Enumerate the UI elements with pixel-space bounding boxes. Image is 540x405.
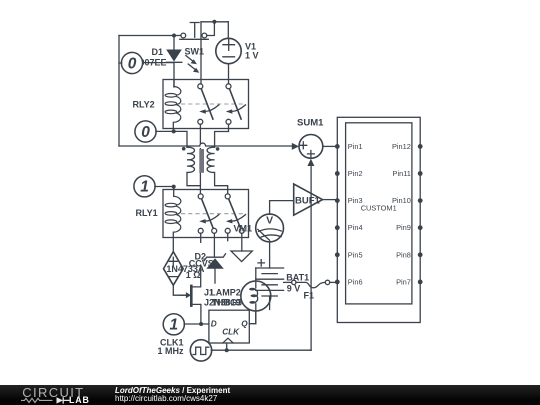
controlled source CCVS1 diamond <box>164 252 184 286</box>
relay RLY1 coil <box>165 196 181 232</box>
buffer BUF1 <box>294 184 335 215</box>
voltmeter VM1 <box>256 214 284 242</box>
relay RLY2 coil <box>165 86 181 122</box>
footer title text <box>115 387 230 403</box>
relay RLY2 right switch <box>226 84 246 125</box>
node 1 RLY1 <box>134 176 174 197</box>
svg-text:Pin8: Pin8 <box>396 250 411 259</box>
svg-text:1: 1 <box>140 179 149 196</box>
svg-text:Pin12: Pin12 <box>392 142 411 151</box>
wire RLY2 right bottom to secondary top <box>215 124 229 147</box>
node junction RLY1 coil top <box>172 185 176 189</box>
svg-text:F1: F1 <box>304 291 315 301</box>
chip pin squares left <box>335 144 340 284</box>
wire CLK junction to flip-flop <box>226 343 228 350</box>
relay RLY1 dashed link <box>181 213 245 215</box>
chip pin squares right <box>418 144 423 284</box>
svg-text:1 V: 1 V <box>245 51 259 61</box>
voltage source V1 <box>216 38 241 83</box>
wire top to V1 <box>227 22 229 39</box>
wire Q to lamp <box>249 311 256 324</box>
node junction top D1 <box>172 34 176 38</box>
wire VM1 top to BUF1 input <box>270 201 294 215</box>
flip-flop CLK1 box <box>209 310 249 343</box>
svg-text:Pin1: Pin1 <box>348 142 363 151</box>
wire node 0 to D1 cathode <box>142 62 174 64</box>
svg-text:BUF1: BUF1 <box>295 196 321 207</box>
wire clock riser to SUM1 bottom input <box>310 166 312 350</box>
chip CUSTOM1 outer box <box>337 117 420 322</box>
svg-text:Pin7: Pin7 <box>396 277 411 286</box>
ground <box>231 251 252 262</box>
chip CUSTOM1 inner box <box>346 123 412 304</box>
wire main horizontal to SUM1 with hop <box>119 143 293 146</box>
svg-text:RLY1: RLY1 <box>136 208 158 218</box>
svg-text:Pin6: Pin6 <box>348 277 363 286</box>
relay RLY1 right switch <box>225 194 245 233</box>
svg-text:BAT1: BAT1 <box>286 273 309 283</box>
SUM1 bottom input arrowhead <box>307 159 314 166</box>
flip-flop clock edge triangle <box>223 338 233 343</box>
svg-text:Pin5: Pin5 <box>348 250 363 259</box>
svg-text:Pin9: Pin9 <box>396 223 411 232</box>
relay RLY2 box <box>163 80 249 129</box>
svg-text:Pin3: Pin3 <box>348 196 363 205</box>
svg-text:LAMP2: LAMP2 <box>210 288 241 298</box>
svg-text:RLY2: RLY2 <box>133 99 155 109</box>
clock source CLK1 <box>190 340 211 361</box>
transformer T1 primary winding <box>187 147 200 186</box>
node 0 top left <box>119 52 143 73</box>
svg-text:0: 0 <box>128 55 137 72</box>
svg-text:1: 1 <box>169 317 178 334</box>
node 1 flip-flop <box>163 314 209 335</box>
D1 LED arrows <box>186 56 200 73</box>
wire left rail <box>118 36 120 147</box>
node junction SW1 top <box>212 20 216 24</box>
wire RLY1 to ground <box>241 233 243 251</box>
wire SUM1 output to Pin1 <box>323 145 335 147</box>
wire RLY1 to D2 <box>213 233 215 256</box>
summer SUM1 <box>299 135 323 159</box>
node junction CLK <box>225 348 229 352</box>
zener diode D2 <box>204 254 225 283</box>
svg-text:Pin11: Pin11 <box>393 169 411 178</box>
svg-text:CLK: CLK <box>222 328 240 337</box>
wire VM1 bottom to BAT1 <box>269 242 271 268</box>
svg-text:V: V <box>266 215 273 227</box>
wire RLY2 middle bottom through transformer <box>199 124 201 194</box>
svg-text:THBG3: THBG3 <box>212 297 243 307</box>
transformer T1 phase dots <box>182 147 220 151</box>
relay RLY1 box <box>163 190 249 238</box>
svg-text:VM1: VM1 <box>234 224 253 234</box>
wire SW1 right to top <box>201 22 228 36</box>
svg-text:Pin4: Pin4 <box>348 223 363 232</box>
svg-text:Pin2: Pin2 <box>348 169 363 178</box>
svg-text:0: 0 <box>141 124 150 141</box>
svg-text:Q: Q <box>241 320 248 329</box>
wire RLY1 pin stubs <box>201 233 228 242</box>
node 0 transformer left <box>135 121 174 142</box>
svg-text:D: D <box>211 320 217 329</box>
lamp LAMP2 <box>241 268 271 324</box>
svg-text:1 Ω: 1 Ω <box>186 270 201 280</box>
transistor J1 JFET <box>180 268 201 324</box>
svg-text:1 MHz: 1 MHz <box>158 346 185 356</box>
svg-text:Pin10: Pin10 <box>392 196 411 205</box>
wire CLK1 output <box>211 349 311 351</box>
footer bar <box>0 385 540 405</box>
transformer T1 secondary winding <box>207 147 228 194</box>
fuse F1 <box>284 280 335 288</box>
svg-text:SUM1: SUM1 <box>297 118 324 129</box>
transformer T1 core <box>199 149 204 173</box>
wire junction to transformer primary top <box>174 131 187 147</box>
relay RLY1 middle switch <box>198 194 219 233</box>
wire top to RLY2 middle switch <box>200 22 202 84</box>
switch SW1 <box>180 23 209 40</box>
node junction RLY2 coil bottom <box>172 129 176 133</box>
wire SUM1 input arrowhead <box>292 143 299 150</box>
wire CCVS to JFET gate <box>173 285 186 295</box>
logo CIRCUIT LAB <box>0 385 110 405</box>
relay RLY2 middle switch <box>198 84 219 125</box>
wire top horizontal <box>119 35 181 37</box>
node junction D input <box>199 322 203 326</box>
relay RLY2 dashed link <box>181 103 245 105</box>
battery BAT1 <box>256 260 284 310</box>
svg-text:D1: D1 <box>152 47 164 57</box>
svg-text:LAB: LAB <box>69 395 90 405</box>
diode D1 <box>166 36 182 88</box>
